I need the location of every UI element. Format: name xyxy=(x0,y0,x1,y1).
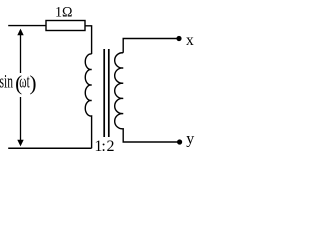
svg-text:): ) xyxy=(30,71,37,95)
svg-text:y: y xyxy=(186,130,194,147)
svg-text:ωt: ωt xyxy=(19,72,30,93)
svg-text:1Ω: 1Ω xyxy=(55,5,73,21)
svg-text:sin: sin xyxy=(0,72,13,93)
svg-text:x: x xyxy=(186,32,194,49)
svg-text:1:2: 1:2 xyxy=(94,138,114,155)
